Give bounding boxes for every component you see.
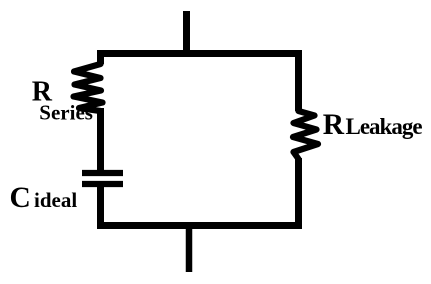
svg-text:C: C — [10, 182, 31, 214]
svg-text:ideal: ideal — [34, 188, 77, 212]
svg-text:Leakage: Leakage — [346, 114, 423, 139]
svg-text:Series: Series — [39, 101, 93, 125]
svg-text:R: R — [323, 109, 345, 141]
